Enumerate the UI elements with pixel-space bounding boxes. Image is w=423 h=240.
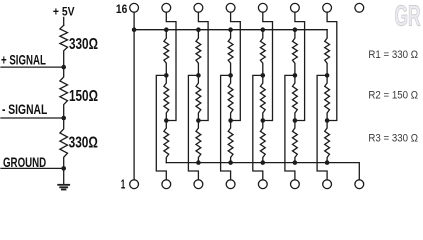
node common bus junction xyxy=(132,27,137,32)
pin 1 xyxy=(130,180,139,189)
svg-text:R1 = 330 Ω: R1 = 330 Ω xyxy=(368,49,418,61)
svg-text:150Ω: 150Ω xyxy=(69,88,98,105)
network section 3: node bus junction R1 xyxy=(228,27,233,32)
resistor 330 ohm (bottom, -SIGNAL to GROUND) xyxy=(60,118,68,168)
network section 5: wire top pin stem and bypass to node B5 xyxy=(295,12,305,120)
node GROUND junction xyxy=(61,166,66,171)
network section 3: resistor R1 330 ohm xyxy=(228,30,233,76)
wire GROUND xyxy=(1,167,64,169)
network section 6: resistor R1 330 ohm xyxy=(325,30,330,76)
network section 5: top pin xyxy=(291,3,300,12)
network section 4: node A4 junction xyxy=(261,73,266,78)
network section 1: top pin xyxy=(162,3,171,12)
network section 3: bottom pin xyxy=(226,180,235,189)
network section 5: node B5 junction xyxy=(293,118,298,123)
network section 3: resistor R2 150 ohm xyxy=(228,75,233,120)
wire -SIGNAL xyxy=(1,117,64,119)
network section 3: wire top pin stem and bypass to node B3 xyxy=(231,12,241,120)
network section 6: node ground bus junction xyxy=(325,160,330,165)
network section 4: wire node A4 to bottom pin xyxy=(253,75,263,179)
network section 1: resistor R2 150 ohm xyxy=(164,75,169,120)
network section 3: top pin xyxy=(226,3,235,12)
network section 2: wire node A2 to bottom pin xyxy=(188,75,198,179)
svg-text:GR: GR xyxy=(395,1,421,33)
svg-text:+ SIGNAL: + SIGNAL xyxy=(1,52,46,68)
network section 4: node B4 junction xyxy=(261,118,266,123)
network section 6: resistor R2 150 ohm xyxy=(325,75,330,120)
network section 5: bottom pin xyxy=(291,180,300,189)
wire top common bus xyxy=(134,29,327,31)
network section 1: node B1 junction xyxy=(164,118,169,123)
network section 5: resistor R1 330 ohm xyxy=(293,30,298,76)
pin 8 (ground) xyxy=(355,180,364,189)
wire +SIGNAL xyxy=(1,66,64,68)
pin 9 (n/c) xyxy=(355,3,364,12)
network section 4: top pin xyxy=(258,3,267,12)
network section 2: resistor R3 330 ohm xyxy=(196,121,201,163)
network section 5: resistor R3 330 ohm xyxy=(293,121,298,163)
svg-text:+ 5V: + 5V xyxy=(53,4,75,18)
network section 6: bottom pin xyxy=(323,180,332,189)
network section 5: wire node A5 to bottom pin xyxy=(285,75,295,179)
network section 6: top pin xyxy=(323,3,332,12)
network section 1: resistor R1 330 ohm xyxy=(164,30,169,76)
svg-text:330Ω: 330Ω xyxy=(69,36,98,53)
network section 4: bottom pin xyxy=(258,180,267,189)
network section 6: node A6 junction xyxy=(325,73,330,78)
network section 4: node ground bus junction xyxy=(261,160,266,165)
network section 1: node A1 junction xyxy=(164,73,169,78)
resistor 150 ohm (+SIGNAL to -SIGNAL) xyxy=(60,67,68,118)
svg-text:GROUND: GROUND xyxy=(3,154,46,170)
network section 6: wire node A6 to bottom pin xyxy=(317,75,327,179)
svg-text:R3 = 330 Ω: R3 = 330 Ω xyxy=(368,132,418,144)
network section 6: resistor R3 330 ohm xyxy=(325,121,330,163)
svg-text:1: 1 xyxy=(121,177,126,192)
network section 4: wire top pin stem and bypass to node B4 xyxy=(263,12,273,120)
network section 3: node ground bus junction xyxy=(228,160,233,165)
network section 2: top pin xyxy=(194,3,203,12)
network section 2: wire top pin stem and bypass to node B2 xyxy=(198,12,208,120)
network section 1: wire top pin stem and bypass to node B1 xyxy=(166,12,176,120)
ground symbol xyxy=(58,185,69,190)
wire +5V lead xyxy=(63,18,65,26)
wire bottom ground bus xyxy=(166,163,359,180)
network section 1: resistor R3 330 ohm xyxy=(164,121,169,163)
wire ground lead xyxy=(63,168,65,184)
wire pin16-pin1 common lead xyxy=(133,12,135,180)
node +SIGNAL junction xyxy=(61,65,66,70)
resistor 330 ohm (top, +5V to +SIGNAL) xyxy=(60,25,68,67)
network section 4: resistor R1 330 ohm xyxy=(260,30,265,76)
network section 2: node bus junction R1 xyxy=(196,27,201,32)
network section 3: node A3 junction xyxy=(228,73,233,78)
svg-text:16: 16 xyxy=(116,2,128,16)
network section 5: node bus junction R1 xyxy=(293,27,298,32)
network section 2: node B2 junction xyxy=(196,118,201,123)
network section 2: resistor R1 330 ohm xyxy=(196,30,201,76)
network section 4: resistor R3 330 ohm xyxy=(260,121,265,163)
network section 4: resistor R2 150 ohm xyxy=(260,75,265,120)
svg-text:330Ω: 330Ω xyxy=(69,135,98,152)
network section 3: resistor R3 330 ohm xyxy=(228,121,233,163)
network section 1: node bus junction R1 xyxy=(164,27,169,32)
network section 5: resistor R2 150 ohm xyxy=(293,75,298,120)
network section 2: node A2 junction xyxy=(196,73,201,78)
network section 6: node B6 junction xyxy=(325,118,330,123)
network section 3: wire node A3 to bottom pin xyxy=(221,75,231,179)
network section 2: node ground bus junction xyxy=(196,160,201,165)
network section 4: node bus junction R1 xyxy=(261,27,266,32)
network section 3: node B3 junction xyxy=(228,118,233,123)
network section 6: wire top pin stem and bypass to node B6 xyxy=(327,12,337,120)
pin 16 xyxy=(130,3,139,12)
network section 2: bottom pin xyxy=(194,180,203,189)
svg-text:- SIGNAL: - SIGNAL xyxy=(2,101,48,117)
network section 5: node ground bus junction xyxy=(293,160,298,165)
network section 1: bottom pin xyxy=(162,180,171,189)
network section 5: node A5 junction xyxy=(293,73,298,78)
network section 1: wire node A1 to bottom pin xyxy=(156,75,166,179)
node -SIGNAL junction xyxy=(61,116,66,121)
svg-text:R2 = 150 Ω: R2 = 150 Ω xyxy=(368,89,418,101)
network section 2: resistor R2 150 ohm xyxy=(196,75,201,120)
